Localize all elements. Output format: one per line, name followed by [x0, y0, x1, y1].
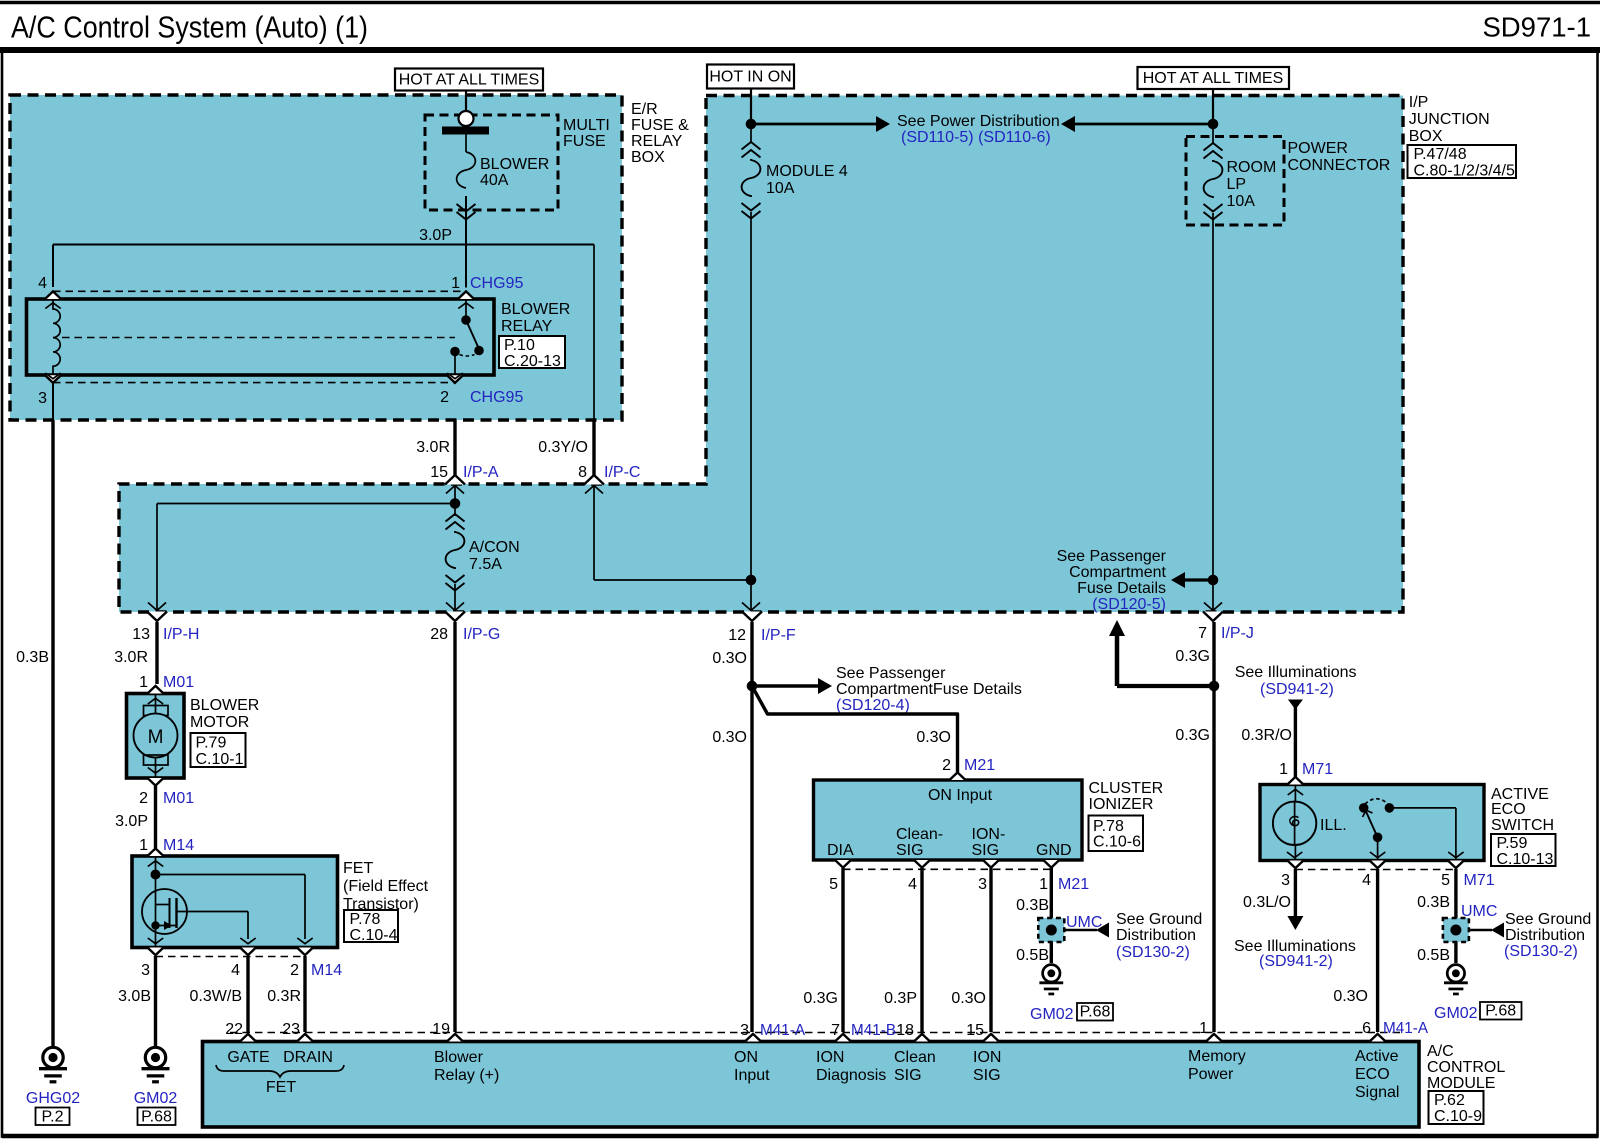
svg-text:CHG95: CHG95: [470, 275, 523, 292]
svg-text:MODULE: MODULE: [1427, 1075, 1495, 1092]
svg-text:40A: 40A: [480, 172, 509, 189]
svg-text:M01: M01: [163, 790, 194, 807]
svg-text:P.10: P.10: [504, 337, 535, 354]
svg-text:P.78: P.78: [1093, 818, 1124, 835]
svg-text:P.68: P.68: [1485, 1003, 1516, 1020]
svg-text:RELAY: RELAY: [631, 133, 683, 150]
svg-text:M21: M21: [1058, 876, 1089, 893]
svg-text:POWER: POWER: [1288, 140, 1348, 157]
svg-text:2: 2: [290, 962, 299, 979]
svg-text:SIG: SIG: [894, 1067, 922, 1084]
svg-text:M41-B: M41-B: [851, 1022, 896, 1039]
svg-text:0.3O: 0.3O: [1333, 988, 1368, 1005]
svg-text:0.3B: 0.3B: [16, 649, 49, 666]
svg-text:7: 7: [831, 1022, 840, 1039]
svg-text:I/P: I/P: [1409, 94, 1429, 111]
svg-text:FET: FET: [266, 1079, 296, 1096]
svg-text:(Field Effect: (Field Effect: [343, 878, 429, 895]
svg-text:3: 3: [141, 962, 150, 979]
svg-text:See Power Distribution: See Power Distribution: [897, 113, 1060, 130]
svg-text:See Passenger: See Passenger: [836, 665, 946, 682]
svg-text:3.0B: 3.0B: [118, 988, 151, 1005]
svg-text:CLUSTER: CLUSTER: [1089, 780, 1164, 797]
svg-text:SD971-1: SD971-1: [1482, 12, 1591, 43]
svg-text:0.3B: 0.3B: [1016, 897, 1049, 914]
svg-text:Blower: Blower: [434, 1049, 484, 1066]
svg-text:4: 4: [908, 876, 917, 893]
svg-text:3.0R: 3.0R: [114, 649, 148, 666]
svg-text:P.79: P.79: [196, 735, 227, 752]
svg-text:P.62: P.62: [1434, 1092, 1465, 1109]
svg-text:HOT AT ALL TIMES: HOT AT ALL TIMES: [1143, 70, 1284, 87]
svg-text:1: 1: [1039, 876, 1048, 893]
svg-text:ON: ON: [734, 1049, 758, 1066]
svg-text:UMC: UMC: [1066, 914, 1102, 931]
svg-text:(SD110-5) (SD110-6): (SD110-5) (SD110-6): [901, 129, 1051, 146]
svg-text:GND: GND: [1036, 842, 1072, 859]
svg-text:ON Input: ON Input: [928, 787, 993, 804]
svg-text:GM02: GM02: [1030, 1006, 1074, 1023]
svg-text:BLOWER: BLOWER: [190, 697, 259, 714]
svg-text:(SD941-2): (SD941-2): [1259, 953, 1333, 970]
svg-text:C.10-13: C.10-13: [1497, 851, 1554, 868]
svg-text:C.10-6: C.10-6: [1093, 834, 1141, 851]
svg-text:ION: ION: [816, 1049, 844, 1066]
svg-text:3: 3: [38, 390, 47, 407]
svg-text:BOX: BOX: [1409, 128, 1443, 145]
svg-text:MOTOR: MOTOR: [190, 714, 249, 731]
svg-text:0.3P: 0.3P: [884, 990, 917, 1007]
svg-text:0.3G: 0.3G: [803, 990, 838, 1007]
svg-text:ECO: ECO: [1491, 801, 1526, 818]
svg-text:C.80-1/2/3/4/5: C.80-1/2/3/4/5: [1414, 163, 1516, 180]
svg-text:6: 6: [1362, 1020, 1371, 1037]
svg-text:(SD130-2): (SD130-2): [1116, 944, 1190, 961]
svg-text:0.5B: 0.5B: [1417, 947, 1450, 964]
svg-text:CompartmentFuse Details: CompartmentFuse Details: [836, 681, 1022, 698]
svg-text:2: 2: [440, 389, 449, 406]
svg-text:JUNCTION: JUNCTION: [1409, 111, 1490, 128]
svg-text:M71: M71: [1302, 761, 1333, 778]
svg-text:19: 19: [432, 1021, 450, 1038]
svg-text:MODULE 4: MODULE 4: [766, 163, 848, 180]
svg-text:P.2: P.2: [42, 1109, 64, 1126]
svg-text:7: 7: [1198, 625, 1207, 642]
svg-text:GM02: GM02: [134, 1090, 178, 1107]
svg-text:Distribution: Distribution: [1116, 927, 1196, 944]
svg-text:1: 1: [451, 275, 460, 292]
svg-text:Diagnosis: Diagnosis: [816, 1067, 886, 1084]
svg-text:SIG: SIG: [972, 842, 1000, 859]
svg-text:Input: Input: [734, 1067, 770, 1084]
svg-text:(SD130-2): (SD130-2): [1504, 943, 1578, 960]
svg-text:10A: 10A: [766, 180, 795, 197]
svg-text:BLOWER: BLOWER: [501, 301, 570, 318]
svg-text:FET: FET: [343, 860, 373, 877]
svg-text:3: 3: [740, 1022, 749, 1039]
svg-text:28: 28: [430, 626, 448, 643]
svg-text:3.0R: 3.0R: [416, 439, 450, 456]
svg-text:12: 12: [728, 627, 746, 644]
svg-text:10A: 10A: [1227, 193, 1256, 210]
svg-text:0.5B: 0.5B: [1016, 947, 1049, 964]
svg-text:P.68: P.68: [1080, 1004, 1111, 1021]
svg-text:M41-A: M41-A: [760, 1022, 806, 1039]
svg-text:(SD941-2): (SD941-2): [1260, 681, 1334, 698]
svg-text:3.0P: 3.0P: [115, 813, 148, 830]
svg-text:SIG: SIG: [973, 1067, 1001, 1084]
svg-text:5: 5: [829, 876, 838, 893]
svg-text:M41-A: M41-A: [1383, 1020, 1429, 1037]
svg-text:C.20-13: C.20-13: [504, 353, 561, 370]
svg-text:A/CON: A/CON: [469, 539, 520, 556]
svg-text:8: 8: [578, 464, 587, 481]
svg-text:HOT IN ON: HOT IN ON: [709, 69, 791, 86]
svg-text:SWITCH: SWITCH: [1491, 817, 1554, 834]
svg-text:4: 4: [1362, 872, 1371, 889]
svg-text:0.3O: 0.3O: [712, 729, 747, 746]
svg-text:CONTROL: CONTROL: [1427, 1059, 1505, 1076]
svg-text:15: 15: [966, 1022, 984, 1039]
svg-text:ILL.: ILL.: [1320, 817, 1347, 834]
svg-text:3: 3: [1281, 872, 1290, 889]
svg-text:M14: M14: [163, 837, 194, 854]
svg-text:GHG02: GHG02: [26, 1090, 80, 1107]
svg-text:I/P-C: I/P-C: [604, 464, 640, 481]
svg-text:CHG95: CHG95: [470, 389, 523, 406]
svg-text:0.3O: 0.3O: [916, 729, 951, 746]
svg-text:0.3R: 0.3R: [267, 988, 301, 1005]
svg-text:LP: LP: [1227, 176, 1247, 193]
svg-text:(SD120-4): (SD120-4): [836, 697, 910, 714]
svg-text:Clean: Clean: [894, 1049, 936, 1066]
svg-text:0.3Y/O: 0.3Y/O: [538, 439, 588, 456]
svg-text:CONNECTOR: CONNECTOR: [1288, 157, 1391, 174]
svg-text:M01: M01: [163, 674, 194, 691]
svg-text:BOX: BOX: [631, 149, 665, 166]
svg-text:GATE: GATE: [227, 1049, 269, 1066]
svg-text:23: 23: [282, 1021, 300, 1038]
svg-text:FUSE &: FUSE &: [631, 117, 689, 134]
svg-text:Compartment: Compartment: [1069, 564, 1166, 581]
svg-text:DRAIN: DRAIN: [283, 1049, 333, 1066]
svg-text:I/P-F: I/P-F: [761, 627, 796, 644]
svg-text:5: 5: [1441, 872, 1450, 889]
svg-text:Signal: Signal: [1355, 1084, 1399, 1101]
svg-text:M71: M71: [1464, 872, 1495, 889]
svg-text:ION: ION: [973, 1049, 1001, 1066]
svg-text:0.3W/B: 0.3W/B: [190, 988, 242, 1005]
svg-text:RELAY: RELAY: [501, 318, 553, 335]
svg-text:See Passenger: See Passenger: [1057, 548, 1167, 565]
svg-text:18: 18: [896, 1022, 914, 1039]
svg-text:See Ground: See Ground: [1116, 911, 1202, 928]
svg-text:C.10-1: C.10-1: [196, 751, 244, 768]
svg-text:E/R: E/R: [631, 101, 658, 118]
svg-text:Relay (+): Relay (+): [434, 1067, 499, 1084]
svg-text:4: 4: [38, 275, 47, 292]
svg-text:M21: M21: [964, 757, 995, 774]
svg-text:0.3O: 0.3O: [951, 990, 986, 1007]
svg-text:0.3G: 0.3G: [1175, 648, 1210, 665]
svg-text:I/P-J: I/P-J: [1221, 625, 1254, 642]
svg-text:See Ground: See Ground: [1505, 911, 1591, 928]
svg-text:BLOWER: BLOWER: [480, 156, 549, 173]
svg-text:2: 2: [942, 757, 951, 774]
svg-text:Power: Power: [1188, 1066, 1234, 1083]
svg-text:C.10-4: C.10-4: [350, 927, 398, 944]
svg-text:1: 1: [139, 674, 148, 691]
svg-text:IONIZER: IONIZER: [1089, 796, 1154, 813]
svg-text:Memory: Memory: [1188, 1048, 1246, 1065]
svg-text:22: 22: [225, 1021, 243, 1038]
svg-text:A/C Control System (Auto) (1): A/C Control System (Auto) (1): [11, 11, 368, 45]
svg-text:UMC: UMC: [1461, 903, 1497, 920]
svg-text:2: 2: [139, 790, 148, 807]
svg-text:1: 1: [1199, 1020, 1208, 1037]
svg-text:3: 3: [978, 876, 987, 893]
svg-text:1: 1: [139, 837, 148, 854]
svg-text:SIG: SIG: [896, 842, 924, 859]
svg-text:I/P-H: I/P-H: [163, 626, 199, 643]
svg-text:ECO: ECO: [1355, 1066, 1390, 1083]
svg-text:P.78: P.78: [350, 911, 381, 928]
svg-text:ION-: ION-: [972, 826, 1006, 843]
svg-text:0.3G: 0.3G: [1175, 727, 1210, 744]
svg-text:C.10-9: C.10-9: [1434, 1108, 1482, 1125]
svg-text:Clean-: Clean-: [896, 826, 943, 843]
svg-text:See Illuminations: See Illuminations: [1235, 664, 1357, 681]
svg-text:GM02: GM02: [1434, 1005, 1478, 1022]
svg-text:Active: Active: [1355, 1048, 1399, 1065]
svg-text:P.47/48: P.47/48: [1414, 146, 1467, 163]
svg-text:7.5A: 7.5A: [469, 556, 502, 573]
svg-text:I/P-G: I/P-G: [463, 626, 500, 643]
svg-text:0.3R/O: 0.3R/O: [1241, 727, 1292, 744]
svg-text:M14: M14: [311, 962, 342, 979]
svg-text:A/C: A/C: [1427, 1043, 1454, 1060]
svg-text:FUSE: FUSE: [563, 133, 606, 150]
svg-text:3.0P: 3.0P: [419, 227, 452, 244]
svg-text:I/P-A: I/P-A: [463, 464, 499, 481]
svg-text:1: 1: [1279, 761, 1288, 778]
svg-text:13: 13: [132, 626, 150, 643]
svg-text:Distribution: Distribution: [1505, 927, 1585, 944]
svg-text:(SD120-5): (SD120-5): [1092, 596, 1166, 613]
svg-text:0.3B: 0.3B: [1417, 894, 1450, 911]
svg-text:0.3O: 0.3O: [712, 650, 747, 667]
svg-text:0.3L/O: 0.3L/O: [1243, 894, 1291, 911]
svg-text:4: 4: [231, 962, 240, 979]
svg-text:MULTI: MULTI: [563, 117, 610, 134]
svg-text:P.68: P.68: [141, 1109, 172, 1126]
svg-text:Fuse Details: Fuse Details: [1077, 580, 1166, 597]
svg-text:M: M: [148, 727, 164, 748]
svg-text:ROOM: ROOM: [1227, 159, 1277, 176]
svg-text:HOT AT ALL TIMES: HOT AT ALL TIMES: [399, 72, 540, 89]
svg-text:15: 15: [430, 464, 448, 481]
svg-text:P.59: P.59: [1497, 835, 1528, 852]
svg-text:DIA: DIA: [827, 842, 854, 859]
